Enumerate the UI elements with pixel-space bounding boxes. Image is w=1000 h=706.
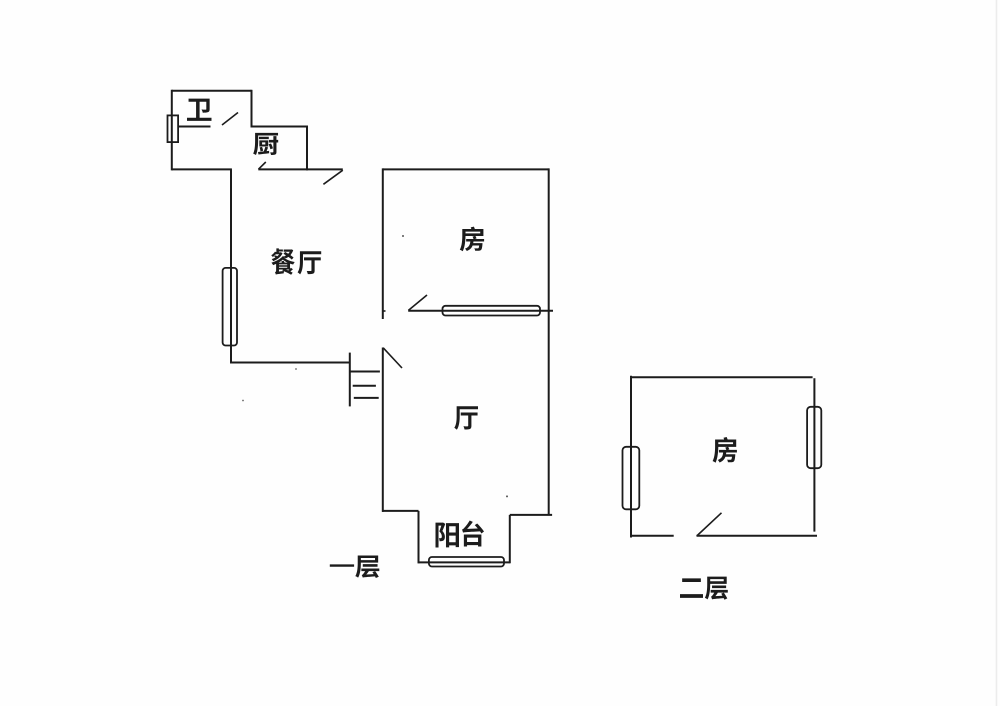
- speck: [402, 235, 404, 237]
- balcony left wall: [418, 511, 420, 564]
- dining window: [223, 268, 237, 346]
- stairs step 3: [354, 397, 379, 399]
- bedroom door swing: [408, 295, 427, 310]
- kitchen door swing: [259, 162, 266, 169]
- living right wall: [548, 168, 550, 515]
- bedroom2 bottom wall right: [697, 535, 818, 537]
- bedroom2 bottom wall left: [631, 535, 674, 537]
- bathroom right wall: [251, 90, 253, 127]
- bathroom-kitchen wall: [178, 126, 211, 128]
- bedroom2 right window: [807, 407, 821, 468]
- living left wall lower: [382, 348, 384, 512]
- living left wall upper: [382, 168, 384, 319]
- bathroom door swing: [222, 113, 238, 126]
- bathroom left wall: [171, 90, 173, 171]
- speck: [506, 495, 508, 497]
- label balcony 台: [462, 520, 484, 546]
- bedroom2 left window: [623, 447, 640, 510]
- balcony top-left wall: [382, 510, 419, 512]
- label bathroom 卫: [187, 99, 211, 121]
- bathroom bottom wall: [172, 168, 232, 170]
- label balcony 阳: [436, 522, 459, 547]
- label floor2 二: [680, 578, 703, 598]
- label kitchen 厨: [253, 133, 278, 155]
- bathroom top wall: [172, 90, 252, 92]
- balcony bottom wall: [419, 561, 510, 563]
- entry door swing: [323, 170, 342, 184]
- dining left wall: [230, 169, 232, 363]
- bedroom window: [443, 306, 541, 316]
- label dining 餐: [271, 248, 295, 274]
- bedroom2 door swing: [697, 513, 722, 536]
- bedroom2 right wall: [813, 378, 815, 531]
- bathroom window: [168, 115, 179, 142]
- label bedroom2 房: [713, 437, 737, 463]
- balcony step wall: [510, 514, 552, 516]
- stairs stringer: [349, 353, 351, 407]
- bedroom2 left wall: [630, 376, 632, 538]
- stairs step 1: [350, 371, 380, 373]
- stairs step 2: [353, 385, 376, 387]
- label floor1 层: [355, 556, 379, 579]
- label living 厅: [454, 406, 478, 430]
- label floor1 一: [330, 564, 354, 566]
- dining bottom wall: [230, 362, 350, 364]
- wall tick: [383, 310, 386, 312]
- label dining 厅: [298, 251, 322, 274]
- bedroom2 top wall: [631, 376, 813, 378]
- kitchen bottom wall: [258, 168, 343, 170]
- kitchen right wall: [306, 126, 308, 171]
- label floor2 层: [705, 577, 728, 600]
- balcony window: [429, 557, 504, 567]
- page edge: [996, 0, 998, 706]
- balcony right wall: [509, 515, 511, 563]
- kitchen top wall: [251, 126, 308, 128]
- living top wall: [383, 168, 549, 170]
- speck: [242, 400, 244, 402]
- speck: [295, 368, 297, 370]
- label bedroom 房: [460, 227, 484, 252]
- living door swing: [383, 348, 402, 368]
- bedroom bottom wall: [408, 310, 553, 312]
